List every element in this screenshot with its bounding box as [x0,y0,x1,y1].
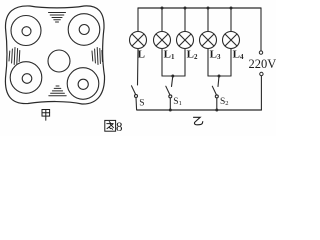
svg-text:S: S [139,99,144,109]
label 图8 (drawn 图 + digit 8) [105,120,116,131]
label 乙 (drawn strokes) [194,117,203,125]
lamp L2 [177,32,194,49]
wire L to switch S [137,49,140,86]
wire S2 to bottom rail [216,98,218,110]
wire top rail [138,7,261,9]
node bottom rail / S1 junction [169,109,172,112]
wire bracket to switch S1 [172,76,173,87]
hatch left-middle [9,48,20,65]
node top rail / L2 junction [184,7,187,10]
lamp L4 [223,32,240,49]
terminal top of 220V supply [259,51,262,54]
switch S (open blade and contact) [132,86,138,98]
svg-text:8: 8 [116,119,123,134]
svg-text:L4: L4 [233,48,244,61]
node top rail / L1 junction [161,7,164,10]
hatch bottom-middle [49,86,66,96]
node bracket L1L2 junction [171,75,174,78]
lamp L3 [200,32,217,49]
terminal bottom of 220V supply [260,72,263,75]
wire L1 down to pair bracket [161,49,163,77]
lamp bulb center [48,50,70,72]
lamp L [130,32,147,49]
node top rail / L4 junction [230,7,233,10]
svg-text:L: L [138,48,145,60]
lamp bulb bottom-left [10,62,42,94]
wire branch L1 from top rail [161,8,163,32]
svg-text:L2: L2 [187,48,198,61]
lamp fixture outline (figure 甲) [5,6,104,104]
wire bottom rail [137,109,261,111]
hatch right-middle [92,48,102,65]
wire L3 down to pair bracket [207,49,209,77]
wire bracket joining L3 and L4 [208,75,231,77]
switch S1 (open blade and contact) [166,86,172,98]
svg-text:L1: L1 [164,48,175,61]
wire branch L4 from top rail [230,8,232,32]
wire branch L from top rail [137,8,139,32]
label 甲 (drawn strokes) [42,110,50,121]
lamp bulb bottom-right [67,68,99,100]
lamp L1 [154,32,171,49]
switch S2 (open blade and contact) [212,86,218,98]
lamp bulb top-right [68,14,100,46]
wire L4 down to pair bracket [230,49,232,77]
node bottom rail / S2 junction [215,109,218,112]
svg-text:220V: 220V [249,57,277,71]
wire supply bottom lead [260,76,262,110]
hatch top-middle [49,13,66,23]
svg-text:S2: S2 [220,97,229,107]
node top rail / L3 junction [207,7,210,10]
svg-text:S1: S1 [173,97,182,107]
wire branch L2 from top rail [184,8,186,32]
svg-text:L3: L3 [210,48,221,61]
wire S1 to bottom rail [169,98,171,110]
wire supply top lead [260,8,262,51]
wire S to bottom rail [135,98,138,111]
node bracket L3L4 junction [218,75,221,78]
wire bracket joining L1 and L2 [162,75,185,77]
wire branch L3 from top rail [207,8,209,32]
lamp bulb top-left [11,16,41,46]
wire L2 down to pair bracket [184,49,186,77]
wire bracket to switch S2 [218,76,219,87]
